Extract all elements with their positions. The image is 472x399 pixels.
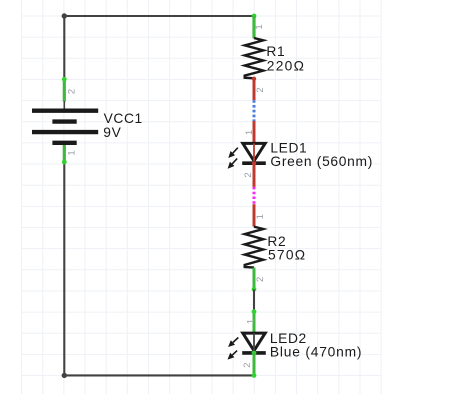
svg-text:1: 1 [246,319,257,324]
svg-text:1: 1 [254,24,265,29]
resistor R1 pin 1 stub (green) [252,16,255,38]
LED2 cathode pin dot (green) [252,351,257,356]
svg-text:2: 2 [255,277,266,282]
svg-text:2: 2 [255,87,266,92]
battery VCC1 top lead [63,101,65,111]
wire R1 to LED1 (selected, blue dashed) [253,100,256,121]
svg-text:VCC1: VCC1 [104,111,143,126]
svg-text:Green (560nm): Green (560nm) [270,154,373,169]
LED2 anode pin stub (green) [253,311,256,333]
resistor R1 body [245,38,264,78]
svg-text:1: 1 [255,214,266,219]
wire left lower (battery pin 1 to bottom wire) [63,162,65,375]
battery VCC1 plate short lower [52,141,76,145]
LED1 emission arrows [233,148,238,153]
wire left upper (top wire to battery pin 2) [63,16,65,79]
resistor R2 pin 2 stub (green) [253,268,256,290]
battery VCC1 plate long top [32,108,98,112]
svg-text:Blue (470nm): Blue (470nm) [270,344,362,359]
svg-text:2: 2 [243,172,254,177]
LED2 emission arrows [233,338,238,343]
wire R2 pin 1 stub (red) [253,204,256,226]
wire bottom (LED2 cathode to battery-) [64,374,254,376]
junction bottom-left [62,373,67,378]
battery VCC1 plate long bottom [32,130,98,134]
resistor R2 body [245,227,264,268]
svg-text:LED1: LED1 [270,140,307,155]
LED2 symbol [243,333,265,351]
svg-text:9V: 9V [103,125,121,140]
svg-text:R1: R1 [266,44,285,59]
node corner top-right (green pin dot) [252,14,257,19]
LED1 symbol [243,143,265,161]
junction top-left [62,13,67,18]
svg-text:2: 2 [242,362,253,367]
svg-text:1: 1 [66,150,77,155]
svg-text:1: 1 [244,130,255,135]
LED1 cathode pin dot (red) [252,161,256,165]
svg-text:220Ω: 220Ω [267,59,305,74]
wire LED1 anode (red) [253,121,256,143]
wire LED2 cathode (green) [253,353,256,377]
battery VCC1 plate short upper [52,119,76,123]
node LED2 cathode to bottom wire (green dot) [252,373,257,378]
wire R2 to LED2 [253,289,255,311]
wire LED1 cathode (red) [253,163,256,187]
svg-text:2: 2 [67,89,78,94]
svg-text:570Ω: 570Ω [268,248,306,263]
wire LED1 to R2 (selected, magenta dashed) [253,187,256,204]
battery VCC1 pin 1 stub (green) [63,145,66,162]
battery VCC1 pin 2 stub (green) [63,79,66,102]
wire top (battery+ to R1) [64,15,254,17]
resistor R1 pin 2 stub (red) [253,78,256,100]
